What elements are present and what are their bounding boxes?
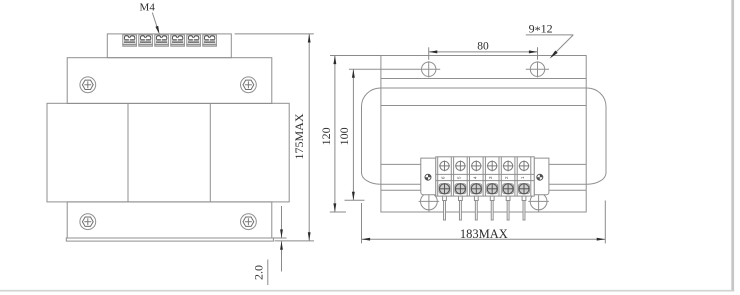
top flange fold line: [381, 78, 586, 80]
left tab screw: [425, 174, 431, 180]
block pin 3: [474, 196, 478, 220]
upper clamp bracket (front view): [67, 58, 272, 104]
M4 leader arrow: [152, 13, 158, 32]
svg-text:100: 100: [337, 127, 351, 145]
block bottom screw 5: [503, 183, 514, 194]
svg-text:2.0: 2.0: [252, 265, 266, 280]
block bottom screw 2: [455, 183, 466, 194]
block cell 4 walls: [484, 157, 486, 196]
label 9*12 underline: [526, 34, 574, 36]
svg-text:120: 120: [319, 127, 333, 145]
page bottom border: [0, 290, 734, 292]
svg-text:M4: M4: [140, 2, 156, 14]
block label band top line: [436, 173, 534, 175]
lower bracket edge line: [381, 163, 586, 165]
svg-text:80: 80: [477, 41, 489, 53]
dim 2.0 extension line: [273, 237, 287, 239]
upper-left bracket screw: [80, 77, 96, 93]
terminal block left tab: [421, 158, 436, 195]
svg-text:175MAX: 175MAX: [292, 113, 306, 159]
block bottom screw 6: [518, 183, 529, 194]
dim 183MAX extension lines: [361, 203, 363, 243]
lower clamp bracket (front view): [67, 202, 272, 238]
coil right divider: [209, 103, 211, 202]
page right border: [731, 0, 734, 291]
block top screw 2: [455, 161, 466, 172]
coil outline (side view, rounded): [362, 88, 607, 184]
label 9*12 leader arrow: [552, 35, 574, 57]
dim 183MAX dimension line: [362, 238, 606, 240]
right tab screw: [537, 174, 543, 180]
dim 80 extension lines: [428, 47, 430, 60]
block pin 1: [443, 196, 447, 220]
top terminal 4: [171, 35, 185, 46]
bottom-right flange hole: [528, 191, 549, 212]
block bottom screw washer 1: [439, 184, 450, 194]
terminal strip housing (top of front view): [107, 34, 231, 58]
dim 2.0 text underline: [267, 260, 269, 286]
dim 175MAX dimension line: [308, 34, 310, 241]
block top screw 4: [487, 161, 498, 172]
block bottom screw washer 3: [471, 184, 482, 194]
block bottom screw 4: [487, 183, 498, 194]
block top screw 3: [471, 161, 482, 172]
dim 120 dimension line: [334, 56, 336, 213]
bottom flange fold line: [381, 189, 586, 191]
block bottom screw 1: [439, 183, 450, 194]
block bottom screw washer 4: [487, 184, 498, 194]
coil body (front view): [47, 103, 289, 202]
top terminal 2: [139, 35, 153, 46]
block top screw 5: [503, 161, 514, 172]
block cell 5 walls: [500, 157, 502, 196]
block cell 3 walls: [469, 157, 471, 196]
bracket frame (side view): [381, 56, 586, 213]
block label band bottom line: [436, 180, 534, 182]
block pin 6: [522, 196, 526, 220]
bottom-left flange hole: [419, 191, 440, 212]
dim 100 dimension line: [352, 69, 354, 200]
mounting base plate (2.0 thick): [66, 238, 273, 241]
svg-text:183MAX: 183MAX: [460, 227, 508, 241]
block bottom screw washer 2: [455, 184, 466, 194]
block pin 5: [506, 196, 510, 220]
upper bracket edge line: [381, 105, 586, 107]
top-right mounting hole: [526, 61, 549, 77]
block cell 1 walls: [437, 157, 439, 196]
terminal block body: [436, 157, 534, 196]
dim 100 extension line bottom: [345, 199, 365, 201]
terminal block right tab: [534, 158, 549, 195]
block top screw 1: [439, 161, 450, 172]
top terminal 3: [155, 35, 169, 46]
top terminal 6: [203, 35, 217, 46]
block cell 2 walls: [453, 157, 455, 196]
block cell 6 walls: [516, 157, 518, 196]
dim 80 dimension line: [429, 51, 538, 53]
coil left divider: [127, 103, 129, 202]
block bottom screw washer 6: [519, 184, 530, 194]
block top screw 6: [519, 161, 530, 172]
dim 175MAX extension line bottom: [275, 240, 315, 242]
block bottom screw 3: [471, 183, 482, 194]
lower-right bracket screw: [241, 214, 257, 230]
block pin 4: [490, 196, 494, 220]
block bottom screw washer 5: [503, 184, 514, 194]
dim 120 extension lines: [330, 55, 381, 57]
block pin 2: [459, 196, 463, 220]
top terminal 1: [123, 35, 137, 46]
lower-left bracket screw: [80, 214, 96, 230]
upper-right bracket screw: [241, 77, 257, 93]
top-left mounting hole: [349, 61, 440, 77]
top terminal 5: [187, 35, 201, 46]
dim 2.0 dimension line upper: [281, 206, 283, 238]
dim 2.0 dimension line lower: [281, 241, 283, 271]
dim 175MAX extension line top: [235, 33, 314, 35]
